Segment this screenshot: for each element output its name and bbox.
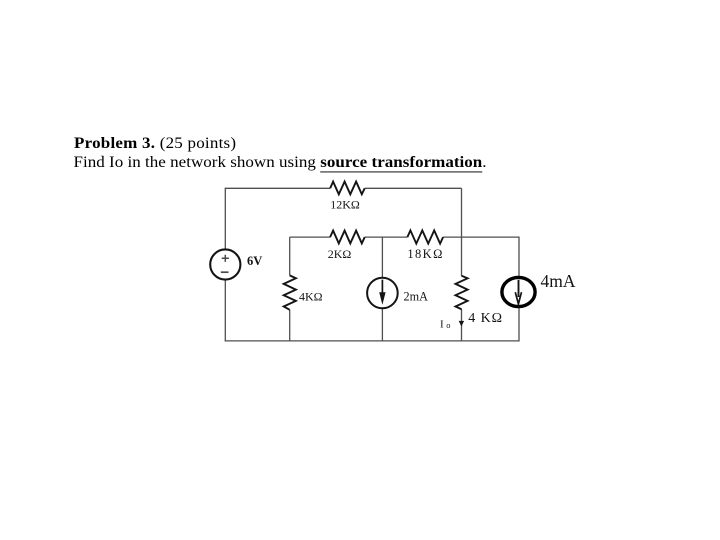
wire center vertical upper (middle wire to 2mA source)	[381, 237, 383, 278]
wire middle horizontal segment 3	[443, 236, 519, 238]
label Io	[440, 318, 450, 330]
problem title text line 1	[74, 135, 236, 151]
svg-text:I: I	[440, 318, 444, 330]
current source 2mA arrow shaft	[381, 280, 383, 294]
svg-text:6V: 6V	[247, 254, 262, 268]
resistor 4K left vertical zigzag	[284, 275, 296, 309]
svg-text:4 KΩ: 4 KΩ	[468, 311, 503, 326]
svg-text:o: o	[446, 320, 450, 330]
svg-text:4mA: 4mA	[541, 271, 576, 291]
wire right upper vertical (top wire to 4K resistor, crosses middle wire)	[461, 188, 463, 275]
label 18K	[407, 247, 443, 261]
label 2mA	[404, 290, 429, 304]
wire center vertical lower (2mA source to bottom wire)	[381, 308, 383, 341]
voltage source 6V circle	[210, 249, 240, 279]
wire top horizontal left segment	[225, 187, 331, 189]
wire middle horizontal segment 1	[290, 236, 330, 238]
resistor 18K zigzag	[407, 230, 443, 243]
Io arrow head (current direction on 4K right branch)	[459, 321, 464, 327]
wire left-middle vertical lower (4K resistor to bottom wire)	[289, 310, 291, 341]
wire far-right vertical upper (middle wire corner to 4mA source)	[518, 237, 520, 277]
current source 2mA circle	[367, 278, 398, 309]
label 4K left	[299, 290, 323, 304]
label 4K right	[468, 311, 503, 326]
resistor 2K zigzag	[330, 231, 365, 244]
wire middle horizontal segment 2	[365, 236, 408, 238]
voltage source plus sign	[222, 255, 229, 262]
resistor 4K right vertical zigzag	[456, 276, 468, 309]
wire bottom-left vertical (6V source to bottom wire)	[224, 280, 226, 342]
svg-text:18KΩ: 18KΩ	[407, 247, 443, 261]
current source 4mA circle (bold)	[502, 277, 535, 306]
current source 4mA arrow shaft	[518, 280, 520, 297]
wire bottom horizontal	[225, 340, 520, 342]
svg-text:4KΩ: 4KΩ	[299, 290, 323, 304]
current source 2mA arrow head	[379, 292, 385, 305]
label 6V	[247, 254, 262, 268]
svg-text:2mA: 2mA	[404, 290, 429, 304]
wire far-right vertical lower (4mA source to bottom wire)	[518, 308, 520, 341]
resistor 12K zigzag	[330, 182, 365, 195]
current source 4mA arrow head (open)	[515, 292, 521, 304]
svg-text:12KΩ: 12KΩ	[330, 198, 360, 212]
wire top-left vertical (top wire down to 6V source)	[224, 188, 226, 249]
wire right lower vertical (4K resistor through Io arrow to bottom wire)	[461, 309, 463, 341]
wire left-middle vertical upper (middle wire to 4K resistor)	[289, 237, 291, 275]
label 12K	[330, 198, 360, 212]
label 4mA	[541, 271, 576, 291]
voltage source minus sign	[221, 271, 229, 273]
label 2K	[328, 247, 352, 261]
svg-text:2KΩ: 2KΩ	[328, 247, 352, 261]
wire top horizontal right segment	[365, 187, 462, 189]
problem title text line 2	[74, 154, 487, 170]
